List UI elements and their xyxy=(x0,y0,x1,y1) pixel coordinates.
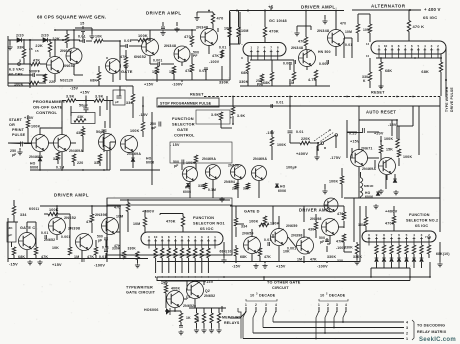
svg-text:8: 8 xyxy=(383,233,385,237)
svg-text:330K: 330K xyxy=(353,255,362,259)
svg-text:+15V: +15V xyxy=(52,263,62,267)
svg-text:10K: 10K xyxy=(95,35,102,39)
svg-text:334: 334 xyxy=(126,101,133,105)
svg-text:K0011: K0011 xyxy=(29,207,39,211)
svg-text:-175V: -175V xyxy=(330,156,341,160)
svg-text:6.3 VAC: 6.3 VAC xyxy=(9,68,24,72)
svg-text:- 15V: - 15V xyxy=(170,143,180,147)
svg-text:330K: 330K xyxy=(327,255,336,259)
svg-text:3.9K: 3.9K xyxy=(237,114,245,118)
svg-text:2N396: 2N396 xyxy=(95,213,107,217)
svg-text:-15V: -15V xyxy=(139,113,148,117)
svg-text:2N469A: 2N469A xyxy=(127,152,141,156)
svg-text:33K: 33K xyxy=(17,46,24,50)
svg-text:-15V: -15V xyxy=(70,87,79,91)
svg-text:68K: 68K xyxy=(90,79,97,83)
svg-text:TO DECODING: TO DECODING xyxy=(417,324,445,328)
svg-text:100K: 100K xyxy=(138,34,148,38)
svg-text:100K: 100K xyxy=(249,220,259,224)
svg-text:RESET: RESET xyxy=(371,91,385,95)
svg-text:430: 430 xyxy=(308,228,314,232)
svg-text:0.01: 0.01 xyxy=(264,238,271,242)
svg-text:2N694: 2N694 xyxy=(224,180,235,184)
svg-text:0: 0 xyxy=(368,233,370,237)
svg-text:+: + xyxy=(230,116,232,120)
svg-text:6: 6 xyxy=(411,44,413,48)
svg-text:6: 6 xyxy=(264,46,266,50)
svg-text:FUNCTION: FUNCTION xyxy=(409,213,430,217)
svg-text:2N469A: 2N469A xyxy=(253,157,267,161)
svg-text:5: 5 xyxy=(406,233,408,237)
svg-text:N02120: N02120 xyxy=(60,79,73,83)
svg-text:GC 10/48: GC 10/48 xyxy=(269,19,287,23)
svg-text:1: 1 xyxy=(250,46,252,50)
svg-text:µF: µF xyxy=(9,233,13,237)
svg-text:OR: OR xyxy=(9,123,15,127)
svg-text:5: 5 xyxy=(188,235,190,239)
svg-text:1: 1 xyxy=(406,337,408,341)
svg-text:6S IOC: 6S IOC xyxy=(415,224,428,228)
svg-text:8: 8 xyxy=(398,44,400,48)
svg-text:1: 1 xyxy=(318,303,320,307)
svg-text:SELECTOR NO1: SELECTOR NO1 xyxy=(193,222,225,226)
svg-text:3: 3 xyxy=(336,303,338,307)
svg-text:pF: pF xyxy=(98,239,102,243)
svg-text:2: 2 xyxy=(208,235,210,239)
svg-text:0.1M: 0.1M xyxy=(208,188,216,192)
svg-text:68K: 68K xyxy=(241,71,248,75)
svg-text:-15V: -15V xyxy=(232,265,241,269)
svg-text:STOP PROGRAMMER PULSE: STOP PROGRAMMER PULSE xyxy=(160,102,212,106)
svg-text:AUTO RESET: AUTO RESET xyxy=(366,110,396,115)
svg-text:GATE: GATE xyxy=(177,127,189,132)
svg-text:SeekIC.com: SeekIC.com xyxy=(419,337,456,343)
svg-text:0.01: 0.01 xyxy=(124,39,132,43)
svg-text:CONTROL: CONTROL xyxy=(174,133,195,138)
svg-text:0.01: 0.01 xyxy=(78,35,86,39)
svg-text:2: 2 xyxy=(406,332,408,336)
svg-text:60 CPS SQUARE WAVE GEN.: 60 CPS SQUARE WAVE GEN. xyxy=(37,15,106,20)
svg-text:6S IOC: 6S IOC xyxy=(200,227,214,231)
svg-text:3K: 3K xyxy=(9,226,14,230)
svg-text:2N348: 2N348 xyxy=(291,46,303,50)
svg-text:+15V: +15V xyxy=(204,280,214,284)
svg-text:68K: 68K xyxy=(240,255,247,259)
svg-text:pF: pF xyxy=(174,164,178,168)
svg-text:4: 4 xyxy=(194,235,196,239)
svg-text:6: 6 xyxy=(181,235,183,239)
svg-text:5: 5 xyxy=(417,44,419,48)
svg-text:-15V: -15V xyxy=(266,131,275,135)
svg-text:0.001: 0.001 xyxy=(61,235,71,239)
svg-text:6006: 6006 xyxy=(30,166,38,170)
svg-text:2/20: 2/20 xyxy=(16,34,24,38)
svg-text:6006: 6006 xyxy=(278,189,286,193)
svg-text:10: 10 xyxy=(366,54,370,58)
svg-text:HO: HO xyxy=(280,185,286,189)
svg-text:100K: 100K xyxy=(329,180,338,184)
svg-text:1: 1 xyxy=(245,303,247,307)
svg-text:2N652: 2N652 xyxy=(63,64,75,68)
svg-text:220: 220 xyxy=(49,80,55,84)
svg-text:1M: 1M xyxy=(297,258,302,262)
svg-text:10: 10 xyxy=(384,44,388,48)
svg-text:1: 1 xyxy=(378,44,380,48)
svg-text:0: 0 xyxy=(148,235,150,239)
svg-text:2N348: 2N348 xyxy=(317,29,329,33)
svg-text:10: 10 xyxy=(320,294,324,298)
svg-text:22K: 22K xyxy=(52,37,60,41)
svg-text:100K: 100K xyxy=(403,155,412,159)
svg-text:220: 220 xyxy=(77,161,83,165)
svg-text:400K: 400K xyxy=(171,287,180,291)
svg-text:6S IGC: 6S IGC xyxy=(423,15,437,20)
svg-text:2N348: 2N348 xyxy=(196,26,208,30)
svg-text:-100V: -100V xyxy=(94,264,105,268)
svg-text:-100V: -100V xyxy=(317,265,328,269)
svg-text:330K: 330K xyxy=(239,80,249,84)
svg-text:9: 9 xyxy=(391,44,393,48)
svg-text:15: 15 xyxy=(80,22,84,26)
svg-text:47K: 47K xyxy=(264,255,271,259)
svg-text:2: 2 xyxy=(255,303,257,307)
svg-text:4: 4 xyxy=(345,303,347,307)
svg-text:HN 500: HN 500 xyxy=(318,50,331,54)
svg-text:0.01: 0.01 xyxy=(41,231,48,235)
svg-text:0.1M: 0.1M xyxy=(56,166,64,170)
svg-text:FUNCTION: FUNCTION xyxy=(172,116,194,121)
svg-text:2N652: 2N652 xyxy=(44,238,55,242)
svg-text:100K: 100K xyxy=(31,125,41,129)
svg-text:+15V: +15V xyxy=(24,116,34,120)
svg-text:330K: 330K xyxy=(219,81,229,85)
svg-text:+15V: +15V xyxy=(276,265,286,269)
svg-text:470: 470 xyxy=(217,17,224,21)
svg-text:470: 470 xyxy=(298,40,305,44)
svg-text:ON-OFF GATE: ON-OFF GATE xyxy=(33,105,63,110)
svg-text:+400V: +400V xyxy=(142,209,155,214)
svg-text:330K: 330K xyxy=(128,247,137,251)
svg-text:pF: pF xyxy=(115,100,119,104)
svg-text:0.001: 0.001 xyxy=(283,62,293,66)
svg-text:220K: 220K xyxy=(301,137,310,141)
svg-text:3: 3 xyxy=(241,56,243,60)
svg-text:MB1D: MB1D xyxy=(364,184,374,188)
svg-text:3.9K: 3.9K xyxy=(66,95,75,99)
svg-text:+15V: +15V xyxy=(350,140,360,144)
svg-text:TYPEWRITER: TYPEWRITER xyxy=(126,286,153,290)
svg-text:PRINT: PRINT xyxy=(12,128,25,132)
svg-text:FUNCTION: FUNCTION xyxy=(193,216,214,220)
svg-text:1: 1 xyxy=(214,235,216,239)
svg-text:50µF: 50µF xyxy=(79,104,89,108)
svg-text:0.01: 0.01 xyxy=(345,43,352,47)
svg-text:2N696: 2N696 xyxy=(228,164,239,168)
svg-text:+5V: +5V xyxy=(161,282,168,286)
svg-text:6N652: 6N652 xyxy=(134,55,146,59)
svg-text:10M: 10M xyxy=(241,29,249,33)
svg-text:36: 36 xyxy=(29,47,33,51)
svg-text:+15V: +15V xyxy=(144,83,154,87)
svg-text:HO6006: HO6006 xyxy=(144,308,159,312)
svg-text:7AB: 7AB xyxy=(425,235,431,239)
svg-text:2: 2 xyxy=(437,44,439,48)
svg-text:DRIVER AMPL.: DRIVER AMPL. xyxy=(301,5,337,10)
svg-text:MERCURY: MERCURY xyxy=(222,316,242,320)
svg-text:68K: 68K xyxy=(263,81,270,85)
svg-text:10K: 10K xyxy=(52,246,59,250)
svg-text:7: 7 xyxy=(391,233,393,237)
svg-text:8: 8 xyxy=(168,235,170,239)
svg-text:DECADE: DECADE xyxy=(259,294,276,298)
svg-text:1K: 1K xyxy=(186,316,191,320)
svg-text:RELAYS: RELAYS xyxy=(224,321,240,325)
svg-text:2N652: 2N652 xyxy=(204,294,215,298)
svg-text:2N652: 2N652 xyxy=(183,304,194,308)
svg-text:9: 9 xyxy=(376,233,378,237)
svg-text:2N469A: 2N469A xyxy=(29,155,43,159)
svg-text:DRIVE PULSE: DRIVE PULSE xyxy=(450,87,454,112)
svg-text:K: K xyxy=(363,79,366,83)
svg-text:7: 7 xyxy=(175,235,177,239)
svg-text:PULSE: PULSE xyxy=(12,133,26,137)
svg-text:DRIVER AMPL: DRIVER AMPL xyxy=(54,193,89,198)
svg-text:3: 3 xyxy=(421,233,423,237)
svg-text:Q2: Q2 xyxy=(205,289,210,293)
svg-text:3: 3 xyxy=(406,326,408,330)
svg-text:GATE D: GATE D xyxy=(244,209,260,214)
svg-text:8: 8 xyxy=(277,46,279,50)
svg-text:15K: 15K xyxy=(386,148,393,152)
svg-text:15: 15 xyxy=(35,49,39,53)
svg-text:DRIVER AMPL: DRIVER AMPL xyxy=(146,11,182,16)
svg-text:12: 12 xyxy=(366,42,370,46)
svg-text:330: 330 xyxy=(337,259,343,263)
svg-text:4: 4 xyxy=(413,233,415,237)
svg-text:START: START xyxy=(9,118,23,122)
svg-text:0.01: 0.01 xyxy=(276,101,284,105)
svg-text:+400V: +400V xyxy=(296,152,308,156)
svg-text:3.9K: 3.9K xyxy=(95,95,104,99)
svg-text:100K: 100K xyxy=(384,137,393,141)
svg-text:6006: 6006 xyxy=(146,161,154,165)
svg-text:0.01: 0.01 xyxy=(219,46,226,50)
svg-text:2N469A: 2N469A xyxy=(69,149,83,153)
svg-text:100K: 100K xyxy=(130,129,140,133)
svg-text:470K: 470K xyxy=(269,30,279,34)
svg-text:68K: 68K xyxy=(421,70,429,74)
svg-text:GATE C: GATE C xyxy=(20,226,35,230)
svg-text:68K(10): 68K(10) xyxy=(436,252,450,256)
svg-text:2N659: 2N659 xyxy=(286,224,298,228)
svg-text:470 K: 470 K xyxy=(413,24,425,29)
svg-text:100µF: 100µF xyxy=(286,166,298,170)
svg-text:60 CPS: 60 CPS xyxy=(9,73,23,77)
svg-text:2N398: 2N398 xyxy=(291,234,303,238)
svg-text:4: 4 xyxy=(275,303,277,307)
svg-text:2N671: 2N671 xyxy=(361,147,373,151)
svg-text:68K(10): 68K(10) xyxy=(220,250,233,254)
svg-text:2N469A: 2N469A xyxy=(202,157,216,161)
svg-text:CIRCUIT: CIRCUIT xyxy=(272,286,289,290)
svg-text:RELAY MATRIX: RELAY MATRIX xyxy=(417,330,447,334)
svg-text:10M: 10M xyxy=(345,30,352,34)
svg-text:334: 334 xyxy=(20,213,27,217)
svg-text:+15V: +15V xyxy=(80,91,90,95)
svg-text:500PF: 500PF xyxy=(29,70,40,74)
svg-text:43K: 43K xyxy=(77,115,84,119)
svg-text:-100V: -100V xyxy=(209,60,220,64)
svg-text:TO OTHER GATE: TO OTHER GATE xyxy=(267,281,301,285)
svg-text:22K: 22K xyxy=(35,44,43,48)
svg-text:4: 4 xyxy=(406,321,408,325)
svg-text:68K: 68K xyxy=(385,69,392,73)
svg-text:330K: 330K xyxy=(344,246,353,250)
svg-text:7: 7 xyxy=(270,46,272,50)
svg-text:µF: µF xyxy=(12,153,16,157)
svg-text:-100V: -100V xyxy=(172,83,183,87)
svg-text:+ 400 V: + 400 V xyxy=(424,7,441,12)
svg-text:+400V: +400V xyxy=(385,209,398,214)
svg-text:47K: 47K xyxy=(212,54,219,58)
svg-text:10: 10 xyxy=(250,294,254,298)
svg-text:pF: pF xyxy=(320,240,324,244)
svg-text:7: 7 xyxy=(404,44,406,48)
svg-text:9: 9 xyxy=(161,235,163,239)
svg-text:2: 2 xyxy=(327,303,329,307)
svg-text:CONTROL: CONTROL xyxy=(36,110,58,115)
svg-text:PROGRAMMER: PROGRAMMER xyxy=(33,99,65,104)
svg-text:PF: PF xyxy=(193,54,198,58)
svg-text:0.001: 0.001 xyxy=(287,247,296,251)
svg-text:0.01: 0.01 xyxy=(296,130,304,134)
svg-text:2N469A: 2N469A xyxy=(362,167,376,171)
svg-text:6: 6 xyxy=(398,233,400,237)
svg-text:GATE: GATE xyxy=(121,69,133,74)
svg-text:-15V: -15V xyxy=(9,263,18,267)
svg-text:Q1: Q1 xyxy=(186,295,191,299)
svg-text:SELECTOR: SELECTOR xyxy=(172,122,195,127)
svg-text:47K: 47K xyxy=(310,258,317,262)
svg-text:3: 3 xyxy=(431,44,433,48)
svg-text:100K: 100K xyxy=(270,222,280,226)
svg-text:334: 334 xyxy=(241,225,247,229)
svg-text:GATE CIRCUIT: GATE CIRCUIT xyxy=(126,291,156,295)
svg-text:6006: 6006 xyxy=(183,190,191,194)
svg-text:ALTERNATOR: ALTERNATOR xyxy=(371,4,406,9)
svg-text:RESET: RESET xyxy=(190,93,204,97)
svg-text:100K: 100K xyxy=(277,143,286,147)
svg-text:10M: 10M xyxy=(133,222,140,226)
svg-text:0.01: 0.01 xyxy=(102,246,109,250)
svg-text:DECADE: DECADE xyxy=(329,294,346,298)
svg-text:SELECTOR NO.2: SELECTOR NO.2 xyxy=(406,219,438,223)
svg-text:3: 3 xyxy=(265,303,267,307)
svg-text:10: 10 xyxy=(154,235,158,239)
svg-text:2: 2 xyxy=(257,46,259,50)
svg-text:0.001: 0.001 xyxy=(153,59,163,63)
svg-text:4: 4 xyxy=(424,44,426,48)
svg-text:470K: 470K xyxy=(166,220,176,224)
svg-text:3: 3 xyxy=(201,235,203,239)
svg-text:2N348: 2N348 xyxy=(164,44,176,48)
svg-text:2N652: 2N652 xyxy=(60,49,72,53)
svg-text:3.9K: 3.9K xyxy=(211,113,219,117)
svg-text:470: 470 xyxy=(340,22,346,26)
svg-text:2/20: 2/20 xyxy=(41,34,49,38)
